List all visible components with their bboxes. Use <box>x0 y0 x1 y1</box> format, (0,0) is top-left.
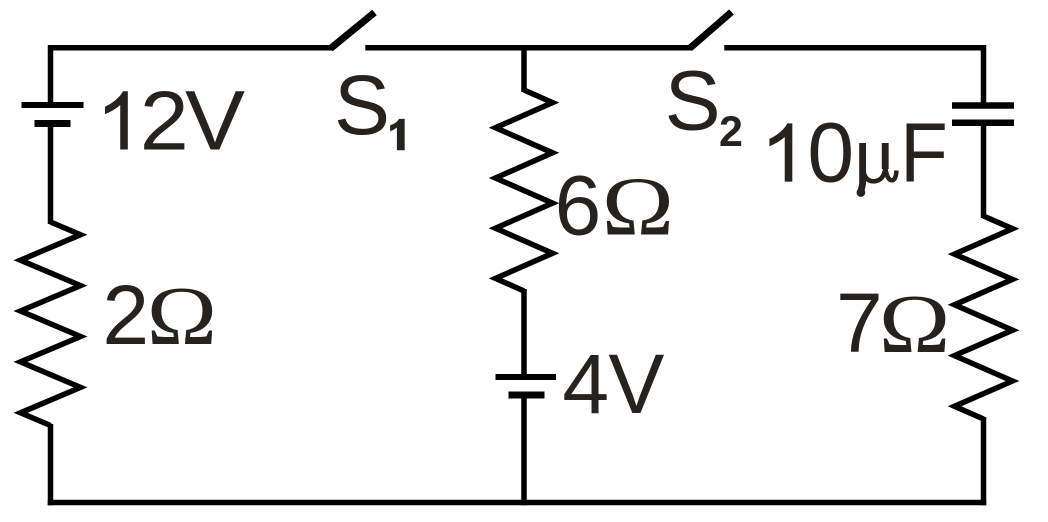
label 10uF mu glyph <box>857 143 897 197</box>
battery B2 4V plate short <box>509 392 545 399</box>
wire battery B1 to resistor 2ohm <box>48 124 54 225</box>
svg-text:2: 2 <box>102 268 149 362</box>
resistor R2 6ohm zigzag <box>496 90 553 291</box>
wire battery 4V to bottom <box>521 395 527 505</box>
label 10uF digit 1 <box>769 123 792 181</box>
svg-text:S: S <box>665 54 721 148</box>
resistor R3 7ohm zigzag <box>955 216 1013 419</box>
wire resistor 7ohm to bottom <box>981 417 987 505</box>
svg-text:7: 7 <box>836 276 883 370</box>
svg-text:Ω: Ω <box>147 270 217 363</box>
svg-text:S: S <box>334 58 390 152</box>
svg-text:0: 0 <box>807 106 854 200</box>
svg-text:Ω: Ω <box>602 160 674 253</box>
svg-text:V: V <box>185 74 245 168</box>
battery B1 12V plate short <box>35 120 71 127</box>
capacitor C1 plate bottom <box>952 120 1014 127</box>
wire top-left (battery to S1) <box>51 48 333 108</box>
wire resistor 2ohm to bottom <box>48 424 54 505</box>
wire bottom <box>48 500 987 506</box>
svg-text:V: V <box>608 337 664 431</box>
switch S1 blade <box>331 13 375 49</box>
svg-text:4: 4 <box>562 337 609 431</box>
svg-text:F: F <box>900 107 948 200</box>
label 12V digit 1 <box>105 91 128 149</box>
svg-text:6: 6 <box>555 158 602 252</box>
wire middle branch top <box>521 45 527 92</box>
svg-text:2: 2 <box>140 74 189 168</box>
label S1 subscript 1 <box>390 119 405 150</box>
battery B1 12V plate long <box>22 102 84 108</box>
wire resistor 6ohm to battery 4V <box>521 289 527 377</box>
switch S2 blade <box>690 12 732 49</box>
svg-text:Ω: Ω <box>879 277 951 371</box>
battery B2 4V plate long <box>496 374 557 380</box>
svg-text:2: 2 <box>719 108 743 156</box>
resistor R1 2ohm zigzag <box>21 222 81 426</box>
wire capacitor to resistor 7ohm <box>981 123 987 218</box>
capacitor C1 plate top <box>952 102 1014 109</box>
wire top-right (S2 to capacitor) <box>724 48 983 104</box>
wire top-middle (S1 to S2) <box>365 45 691 51</box>
